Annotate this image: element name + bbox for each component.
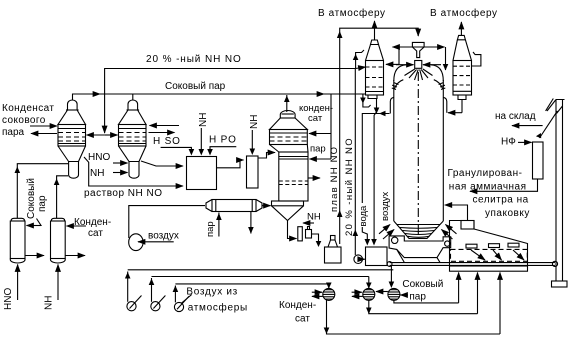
wire HNO3 arrow into ITN-2 neck <box>113 162 128 164</box>
apparatus hydroseal vessel 1 <box>298 227 303 241</box>
wire condensate inlet arrow into ITN-1 <box>30 125 57 127</box>
wire condensate arrow into heater K2 <box>67 225 87 227</box>
heat exchanger circle B <box>363 288 375 300</box>
conveyor belt under tower <box>387 261 557 266</box>
svg-text:вода: вода <box>358 205 369 227</box>
wire tower top distribution line <box>393 46 419 48</box>
wire drop from conveyor into C <box>390 266 392 282</box>
wire 20% solution riser from pump to header <box>354 69 356 256</box>
svg-text:пар: пар <box>37 195 48 212</box>
svg-text:НФ: НФ <box>501 137 516 148</box>
svg-text:20 % -ный NH NO: 20 % -ный NH NO <box>344 137 355 236</box>
apparatus hydroseal vessel 2 <box>306 227 312 239</box>
svg-text:Соковый: Соковый <box>402 279 443 290</box>
svg-text:H PO: H PO <box>209 135 237 146</box>
wire H3PO4 feed into neutralizer box <box>210 147 236 150</box>
svg-text:пар: пар <box>205 221 216 237</box>
wire drain stub from K1 <box>25 255 44 257</box>
wire solution drain from ITN-2 to neutralizer box <box>141 161 183 166</box>
wire air suction into fan <box>138 241 174 243</box>
wire C to B link <box>376 291 388 293</box>
leader from air intake 3 to label <box>181 295 192 304</box>
svg-text:сокового: сокового <box>2 115 46 126</box>
svg-text:атмосферы: атмосферы <box>188 302 248 314</box>
label: Гранулированная аммиачная селитра на упаковку <box>448 168 530 219</box>
svg-text:NH: NH <box>249 115 260 129</box>
apparatus scrubber-1 <box>366 40 384 99</box>
spray wings left <box>392 80 404 90</box>
wire vent to atmosphere from scrubber-1 <box>374 21 376 40</box>
wire NH3 feed into neutralizer box <box>200 128 202 150</box>
wire inlet stub into exchanger B <box>352 291 362 293</box>
walls <box>393 80 395 221</box>
pipe 20% NH4NO3 header <box>105 69 356 134</box>
wire drain from B to cooler riser <box>369 300 478 313</box>
svg-text:плав NH NO: плав NH NO <box>329 146 340 212</box>
wire melt outlet stub (плав) <box>308 177 320 179</box>
dome arcs <box>394 65 406 81</box>
svg-text:В атмосферу: В атмосферу <box>318 7 386 19</box>
svg-text:Соковый: Соковый <box>26 178 37 219</box>
apparatus fluid-bed cooler (feeder) <box>450 221 528 272</box>
svg-text:Конден-: Конден- <box>279 300 316 311</box>
svg-text:сат: сат <box>308 113 323 124</box>
wire air drop from bus into exchanger A <box>328 284 330 288</box>
wire NH3 feed into K2 <box>57 265 59 301</box>
svg-text:пара: пара <box>2 127 25 138</box>
wire inlet stub into exchanger A <box>312 291 322 293</box>
wire drain branch with vent below juice-steam header <box>363 94 371 107</box>
wire drain stub from K2 <box>65 255 85 257</box>
svg-text:упаковку: упаковку <box>485 208 530 219</box>
spray nozzle <box>415 61 422 69</box>
label: Конденсат сокового пара <box>2 103 54 138</box>
svg-text:сат: сат <box>295 314 310 325</box>
wire outlet stub from ITN-2 to right <box>149 132 175 134</box>
apparatus scrubber-2 <box>453 35 472 99</box>
air intake 2 <box>149 277 369 311</box>
juice-steam fan circle C <box>388 288 400 300</box>
svg-text:HNO: HNO <box>88 152 110 163</box>
wire condensate outlet arrow from ITN-1 <box>31 133 57 135</box>
wire steam feed into air heater <box>218 213 220 237</box>
wire vapor pipe from ITN-1 to juice-steam header <box>73 94 101 100</box>
pipe juice-steam header (Соковый пар) <box>100 93 323 95</box>
spray wings right <box>434 80 446 90</box>
wire transfer from box to after-neutralizer column <box>217 160 244 168</box>
wire leader from label into heater K1 <box>37 219 42 226</box>
apparatus NF dresser box <box>533 142 544 179</box>
svg-text:на склад: на склад <box>495 111 536 122</box>
svg-text:пар: пар <box>310 144 326 155</box>
wire H2SO4 feed into neutralizer box <box>161 147 192 150</box>
svg-text:H SO: H SO <box>153 136 181 147</box>
svg-text:20 % -ный NH NO: 20 % -ный NH NO <box>146 54 242 65</box>
svg-text:селитра на: селитра на <box>473 195 529 206</box>
svg-text:сат: сат <box>88 228 103 239</box>
heater column K2 <box>51 218 66 263</box>
axis dash-dot <box>417 72 419 237</box>
air risers into cooler bottom <box>458 273 460 303</box>
apparatus ITN-2 (neutralizer vessel) <box>119 100 147 178</box>
wire NH3 arrow into ITN-2 neck <box>113 172 128 174</box>
wire NH3 riser from heater K2 into ITN-1 neck <box>57 176 68 218</box>
apparatus ITN-1 (neutralizer vessel) <box>58 100 86 178</box>
wire chute from elevator head into dresser <box>540 111 558 138</box>
label: Соковый пар (vertical, heaters) <box>26 178 48 219</box>
pump (solution) <box>354 255 363 264</box>
label: Конден-сат (bottom) <box>279 300 316 325</box>
wire condensate drain from air heater <box>250 212 252 234</box>
vent hook of scrubber-2 <box>472 52 481 66</box>
wire feed branch into scrubber-1 right side <box>398 47 400 64</box>
feed funnel <box>412 42 424 57</box>
wire melt drain into melt tank <box>312 234 319 242</box>
wire scrubber-1 drain into solution tank <box>374 99 376 241</box>
wire solution drain from ITN-1 (раствор NH4NO3) <box>84 157 183 186</box>
wire HNO3 riser from heater K1 into ITN-1 neck <box>17 164 68 218</box>
vent hook on 20% header <box>356 50 364 69</box>
wire hot air duct into evaporator air box <box>262 205 271 207</box>
wire product to warehouse arrow <box>512 125 543 127</box>
wire NF additive arrow into dresser <box>518 141 532 143</box>
wall elbows <box>390 97 394 113</box>
fan воздух (air blower circle) <box>129 234 143 251</box>
svg-text:NH: NH <box>307 212 321 223</box>
wire scrubber-2 drain into tower <box>461 100 463 113</box>
wire line between ITN-1 and ITN-2 <box>87 134 105 136</box>
apparatus solution tank <box>366 247 388 266</box>
wire fines return from cooler into tower <box>445 205 468 220</box>
svg-text:В атмосферу: В атмосферу <box>430 7 498 19</box>
tower support frame with wheels <box>389 236 451 263</box>
wire air drop from bus into exchanger B <box>368 277 370 289</box>
wire inlet stub into ITN-2 from right <box>150 125 180 127</box>
wire evaporator vapor pipe to juice-steam header <box>286 95 288 112</box>
spray fan lines <box>405 69 433 80</box>
wire drain from A to cooler riser <box>327 300 501 334</box>
label: Соковый пар (bottom) <box>402 279 443 303</box>
bottom cone with louvers <box>394 221 444 239</box>
svg-text:Конденсат: Конденсат <box>2 103 54 114</box>
svg-text:воздух: воздух <box>380 191 391 221</box>
air arrows into tower base (left) <box>379 225 390 234</box>
heat exchanger circle A <box>323 288 335 300</box>
svg-text:NH: NH <box>198 113 209 127</box>
wire elbow into scrubber-2 <box>445 47 447 70</box>
apparatus melt tank <box>325 236 342 264</box>
apparatus neutralizer box <box>187 157 217 190</box>
label: Воздух из атмосферы <box>186 287 248 314</box>
svg-text:ная аммиачная: ная аммиачная <box>449 182 527 193</box>
elevator <box>547 100 567 288</box>
svg-text:HNO: HNO <box>3 288 14 310</box>
svg-text:Гранулирован-: Гранулирован- <box>448 168 523 179</box>
wire NH3 feed into column <box>251 130 253 149</box>
wire condensate stub into evaporator <box>330 94 332 134</box>
wire outlet stub from exchanger A <box>312 295 323 297</box>
wire outlet stub from exchanger B <box>352 295 363 297</box>
air intake 1 <box>125 270 393 311</box>
wire pump discharge into solution tank <box>362 258 364 260</box>
wire steam stub into C <box>401 294 409 296</box>
label: Конден-сат (heaters) <box>74 217 111 239</box>
wire air duct from fan to air heater <box>129 206 205 238</box>
apparatus prilling tower <box>390 42 447 238</box>
wire drain from C to cooler riser <box>394 300 459 303</box>
svg-text:NH: NH <box>90 168 104 179</box>
wire vapor pipe from ITN-2 cap to juice-steam header <box>132 94 134 100</box>
air intake 3 <box>173 284 329 312</box>
nozzle feed lines <box>396 64 414 66</box>
air arrows into tower base (right) <box>446 225 457 234</box>
svg-text:Воздух из: Воздух из <box>186 287 238 298</box>
evaporator air distribution collar and bottom cone <box>272 201 304 239</box>
heater column K1 <box>10 218 25 263</box>
wire product to packing line <box>470 179 538 191</box>
wire condensate line from tower elbow to solution tank <box>362 114 389 204</box>
label: конден-сат (evaporator) <box>299 103 333 124</box>
svg-text:раствор NH NO: раствор NH NO <box>84 188 163 199</box>
wire NH3 stub into hydroseal <box>303 222 314 224</box>
svg-text:NH: NH <box>44 296 55 310</box>
wire transfer from column to evaporator <box>258 153 275 159</box>
svg-text:пар: пар <box>409 292 426 303</box>
apparatus evaporator (central vessel) <box>270 110 309 201</box>
wire header stub into scrubber-1 <box>356 67 366 69</box>
wire HNO3 feed into K1 <box>17 265 19 301</box>
svg-text:воздух: воздух <box>148 231 179 242</box>
svg-text:Соковый пар: Соковый пар <box>165 81 226 92</box>
apparatus after-neutralizer column <box>247 156 259 188</box>
wire chute to warehouse from elevator head <box>546 99 554 111</box>
wire vent to atmosphere from scrubber-2 <box>460 22 462 35</box>
wire steam stub into evaporator <box>330 134 332 160</box>
apparatus air heater (horizontal exchanger) <box>206 200 262 212</box>
wire melt riser to prilling tower funnel <box>340 28 419 244</box>
